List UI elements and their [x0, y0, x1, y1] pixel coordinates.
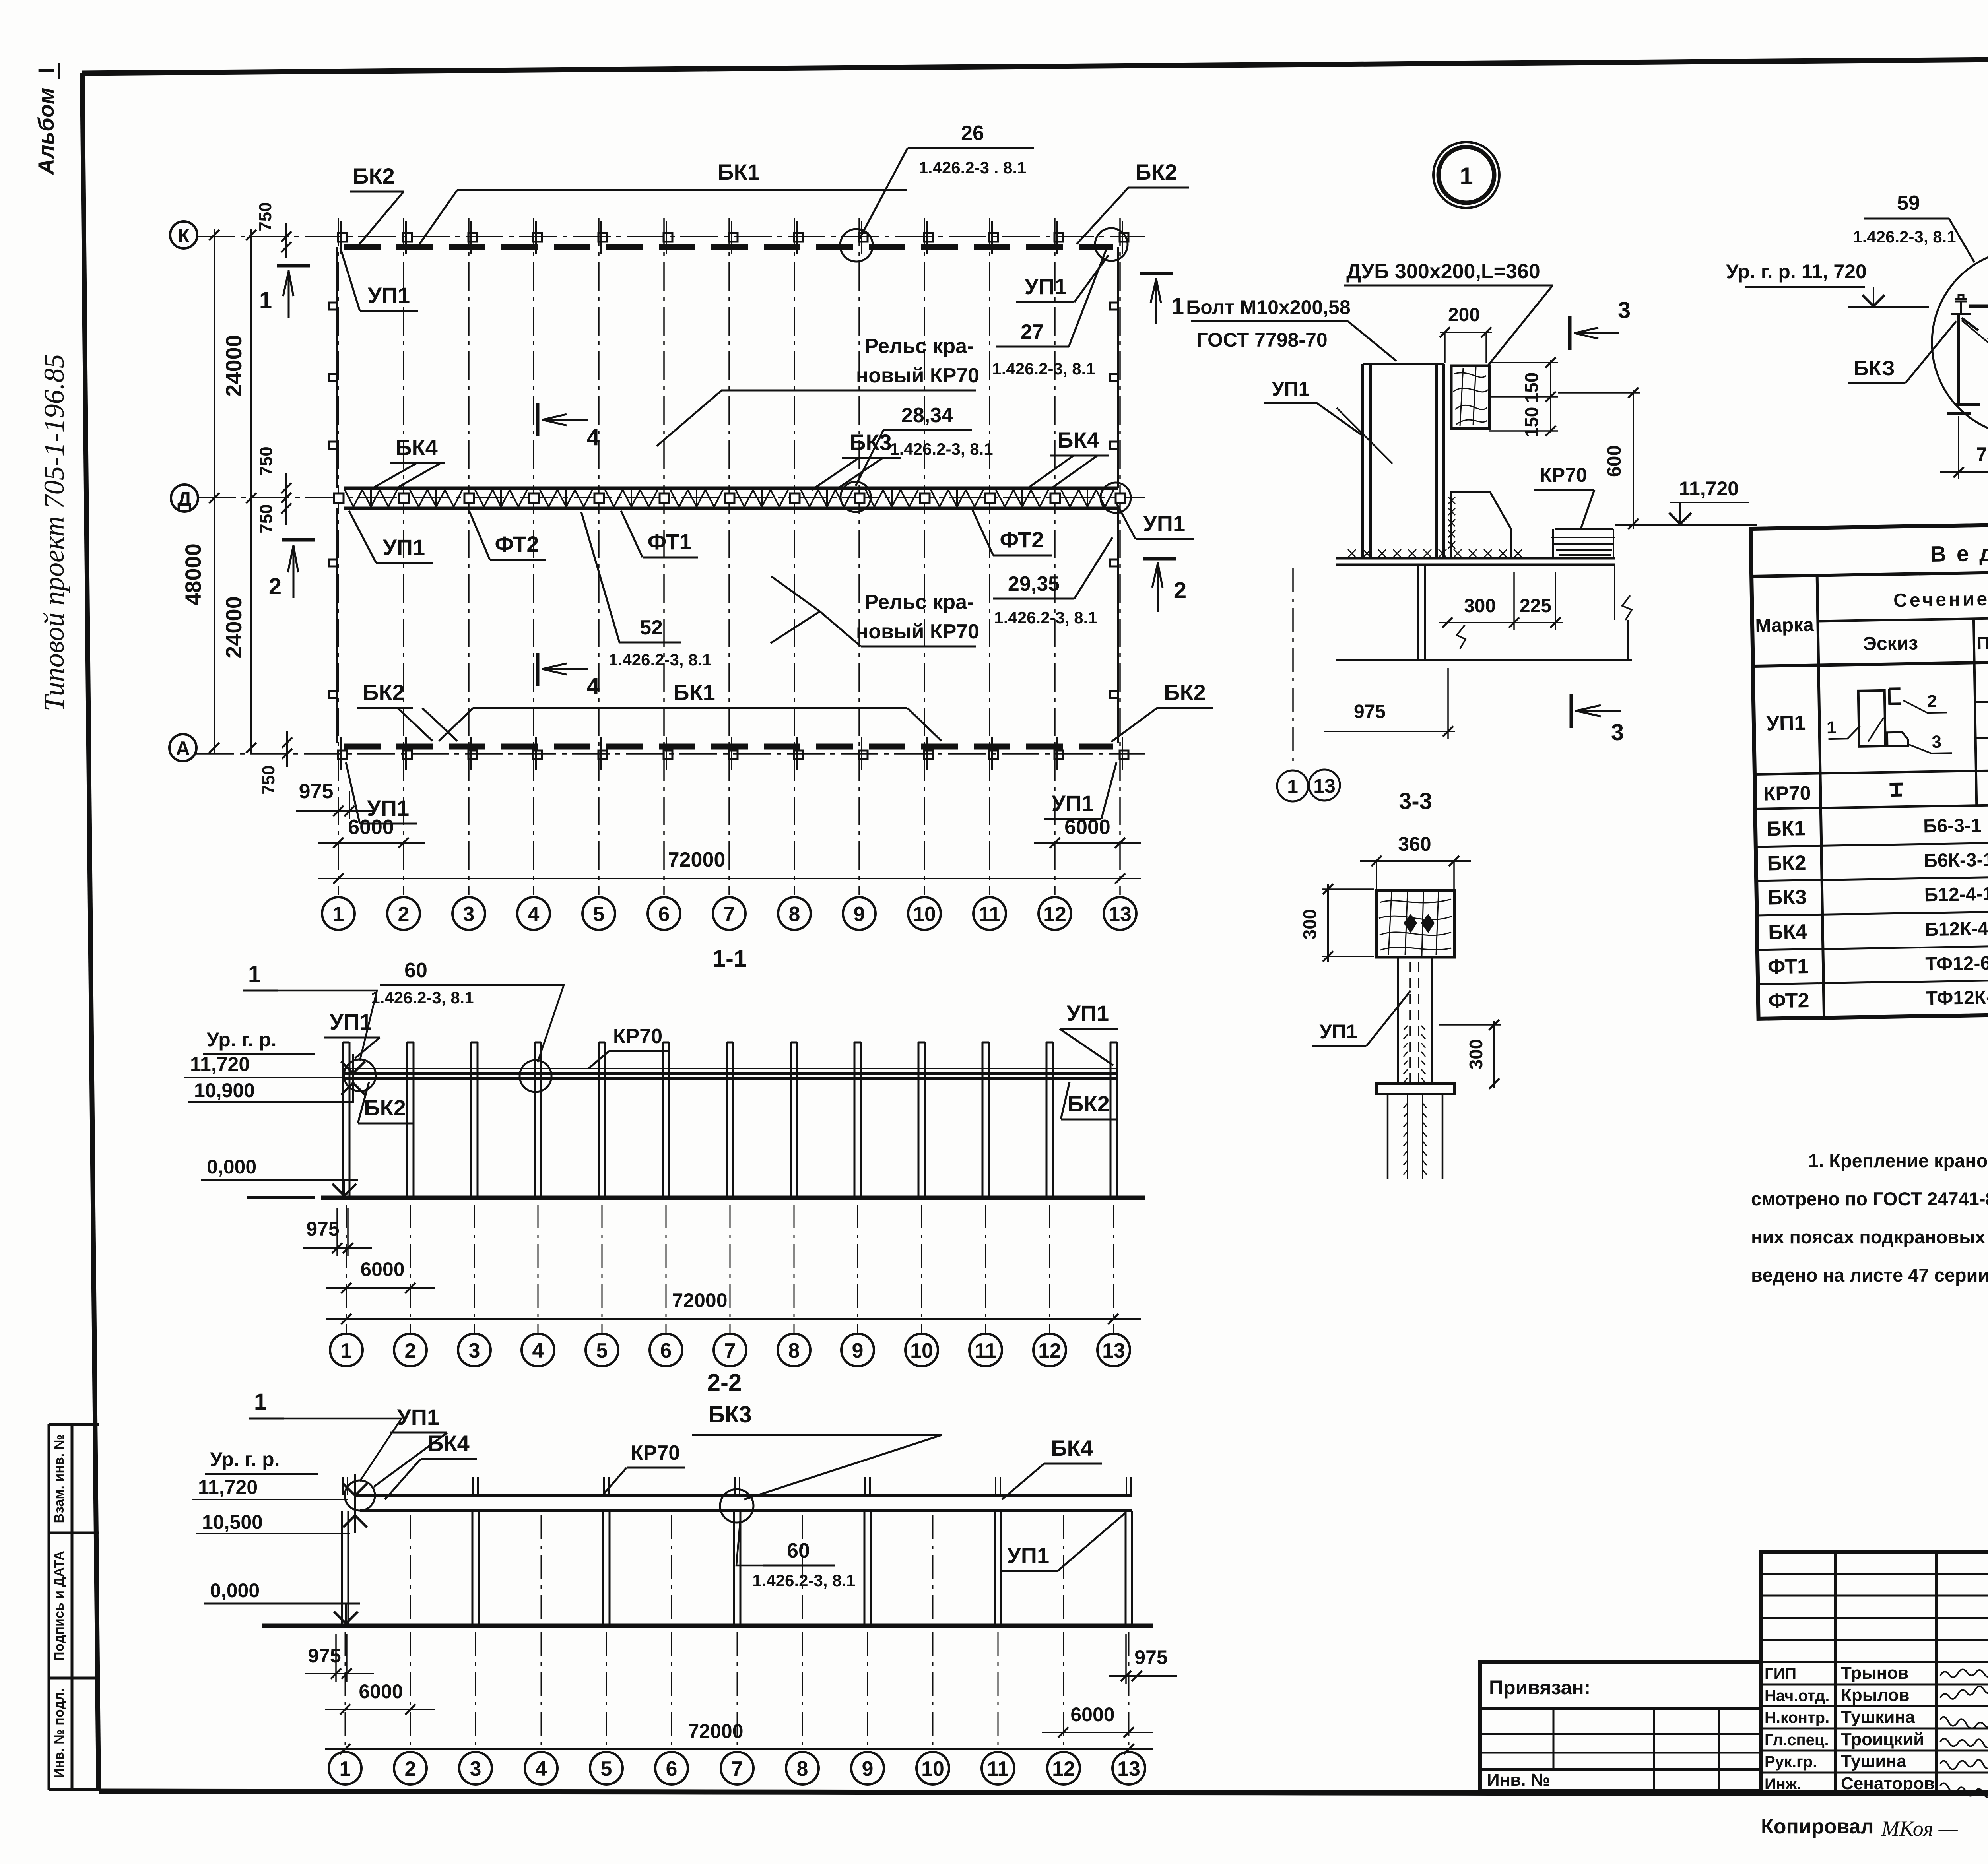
svg-text:750: 750 [256, 446, 276, 475]
page frame bottom border [99, 1791, 1988, 1794]
svg-text:Ур. г. р.: Ур. г. р. [207, 1028, 277, 1051]
node axis 4 [522, 1334, 554, 1366]
svg-text:7: 7 [724, 1339, 736, 1362]
svg-text:Тушкина: Тушкина [1841, 1707, 1915, 1727]
svg-text:6000: 6000 [1070, 1703, 1114, 1726]
svg-text:11,720: 11,720 [190, 1053, 250, 1075]
section mark 4 lower [536, 653, 540, 686]
node axis 5 [582, 897, 615, 930]
svg-text:2: 2 [269, 574, 282, 599]
node axis 13 [1104, 897, 1136, 930]
node axis 8 [778, 897, 811, 930]
section 2-2 node circle col7 [720, 1489, 753, 1523]
svg-text:27: 27 [1021, 320, 1044, 343]
svg-text:2: 2 [405, 1757, 416, 1781]
node axis 1 [322, 897, 355, 930]
svg-text:3: 3 [1611, 720, 1624, 745]
svg-text:ГОСТ 7798-70: ГОСТ 7798-70 [1196, 329, 1327, 351]
rail stub [995, 1477, 996, 1495]
row A column base plates [338, 751, 347, 759]
section mark 2 left [282, 538, 315, 542]
detail 1: column web diagonal [1337, 408, 1392, 464]
rail stub [864, 1477, 866, 1495]
svg-text:750: 750 [259, 765, 278, 794]
svg-text:1-1: 1-1 [712, 945, 747, 972]
svg-text:1.426.2-3, 8.1: 1.426.2-3, 8.1 [752, 1571, 855, 1590]
section 1-1 node circle col1 [344, 1059, 376, 1091]
detail 1: section mark 3 upper [1568, 316, 1572, 350]
svg-text:БК2: БК2 [363, 680, 405, 705]
svg-text:0,000: 0,000 [210, 1579, 260, 1602]
svg-text:УП1: УП1 [1025, 274, 1067, 299]
svg-text:6000: 6000 [360, 1258, 404, 1280]
svg-text:7: 7 [724, 903, 735, 926]
svg-text:72000: 72000 [668, 848, 726, 871]
svg-text:новый КР70: новый КР70 [856, 620, 979, 643]
svg-text:1: 1 [341, 1339, 352, 1362]
svg-text:225: 225 [1520, 595, 1551, 617]
svg-text:48000: 48000 [181, 543, 206, 605]
section 2-2 column axis chains [345, 1632, 346, 1747]
svg-text:28,34: 28,34 [901, 404, 953, 427]
svg-text:5: 5 [593, 903, 605, 926]
node axis 13 [1097, 1334, 1130, 1366]
node axis 3 [458, 1334, 491, 1366]
node axis 8 [786, 1752, 819, 1784]
svg-text:БК1: БК1 [673, 680, 715, 705]
title vertical splits left [1834, 1552, 1837, 1792]
svg-text:I: I [33, 68, 58, 74]
svg-text:Трынов: Трынов [1841, 1663, 1908, 1683]
rail stub [1126, 1477, 1127, 1495]
table header split line [1818, 613, 1988, 621]
svg-text:1: 1 [333, 903, 344, 926]
detail 1: dim 300 225 [1439, 622, 1563, 623]
svg-text:ведено на листе 47 серии 1.426: ведено на листе 47 серии 1.426.2-3, вып.… [1751, 1265, 1988, 1286]
svg-text:13: 13 [1109, 903, 1132, 926]
plan UP1 stop-column line at col13 with bolts [1117, 247, 1119, 488]
section 2-2 columns (odd axes) [341, 1511, 343, 1626]
table row lines [1755, 762, 1988, 774]
section 1-1 node circle col4 [520, 1060, 551, 1092]
svg-text:9: 9 [852, 1339, 864, 1362]
svg-text:ФТ2: ФТ2 [495, 531, 539, 557]
node axis 11 [969, 1334, 1002, 1366]
title block outer [1761, 1552, 1988, 1792]
svg-text:200: 200 [1448, 305, 1480, 326]
4-4 top flange line [1969, 305, 1988, 308]
detail 1: break zigzag [1457, 625, 1466, 649]
svg-text:Подпись и ДАТА: Подпись и ДАТА [52, 1551, 67, 1661]
dim line 48000 vertical [214, 229, 215, 753]
svg-text:24000: 24000 [221, 335, 246, 397]
svg-text:9: 9 [854, 903, 865, 926]
svg-text:БК2: БК2 [364, 1095, 406, 1120]
svg-text:ФТ1: ФТ1 [1768, 955, 1809, 979]
signatures squiggles [1940, 1670, 1988, 1678]
svg-text:3: 3 [469, 1339, 480, 1362]
svg-text:БК3: БК3 [708, 1402, 751, 1428]
plan: axis row A chain line [196, 753, 1145, 755]
beam BK1/BK2 row K dashed [344, 244, 1113, 250]
rail stub [472, 1477, 474, 1495]
detail 4-4 big circle [1932, 250, 1988, 436]
4-4 bottom ticks [1947, 412, 1971, 415]
svg-text:3: 3 [470, 1757, 481, 1781]
row K column base plates [338, 233, 347, 242]
svg-text:УП1: УП1 [368, 283, 410, 308]
svg-text:13: 13 [1313, 775, 1336, 797]
svg-text:11,720: 11,720 [198, 1476, 258, 1498]
beam BK1/BK2 row A dashed [344, 744, 1113, 750]
4-4 rail glyph left [1955, 295, 1967, 301]
svg-text:29,35: 29,35 [1008, 572, 1060, 595]
section 2-2 ground line [262, 1624, 1153, 1628]
page frame left border [82, 73, 99, 1791]
joint circle row K col13 [1095, 228, 1128, 261]
node axis 10 [908, 897, 941, 930]
svg-text:13: 13 [1117, 1757, 1140, 1781]
UP1 sketch [1858, 691, 1885, 747]
section 2-2 beam bottom line [360, 1509, 1132, 1512]
svg-text:Взам. инв. №: Взам. инв. № [52, 1434, 67, 1523]
svg-text:УП1: УП1 [383, 535, 425, 560]
title block sig rows [1761, 1661, 1988, 1663]
svg-text:3: 3 [463, 903, 475, 926]
node axis 9 [843, 897, 876, 930]
detail 1: beam top flange [1336, 557, 1615, 560]
svg-text:ГИП: ГИП [1765, 1665, 1796, 1682]
svg-text:6: 6 [666, 1757, 678, 1781]
3-3 base plate [1376, 1084, 1454, 1094]
svg-text:750: 750 [1976, 443, 1988, 466]
svg-text:Нач.отд.: Нач.отд. [1765, 1687, 1829, 1705]
node axis 12 [1047, 1752, 1080, 1784]
svg-text:6000: 6000 [348, 816, 394, 839]
plan: axis row D chain line [198, 497, 1145, 498]
svg-text:150: 150 [1521, 372, 1542, 403]
joint circle row D col13 [1101, 483, 1131, 513]
title block small top rows [1761, 1573, 1988, 1575]
svg-text:БК2: БК2 [353, 163, 395, 188]
svg-text:1: 1 [1171, 293, 1184, 319]
svg-text:БК3: БК3 [1767, 886, 1807, 910]
joint circle row K col9 [840, 229, 873, 262]
svg-text:Тушина: Тушина [1841, 1752, 1906, 1771]
grid circle D [171, 485, 198, 512]
4-4 bottom dashed chord [1956, 403, 1988, 406]
svg-text:ТФ12-6: ТФ12-6 [1925, 953, 1988, 975]
elements table frame [1751, 516, 1988, 1019]
grid circle K [170, 221, 197, 248]
svg-text:Крылов: Крылов [1841, 1686, 1910, 1705]
svg-text:1. Крепление крановых рельсов: 1. Крепление крановых рельсов к подкрано… [1808, 1150, 1988, 1171]
margin stamp boxes [49, 1424, 99, 1790]
section 2-2 even axis chain lines through bays [410, 1515, 411, 1624]
svg-text:Эскиз: Эскиз [1863, 633, 1918, 655]
svg-text:Марка: Марка [1755, 615, 1814, 636]
detail 1: dim 150 150 [1550, 360, 1551, 433]
rail stub [342, 1477, 344, 1495]
svg-text:БК4: БК4 [1057, 427, 1099, 452]
truss row D bottom chord [344, 507, 1118, 510]
svg-text:1.426.2-3, 8.1: 1.426.2-3, 8.1 [992, 359, 1095, 378]
plan UP1 stop-column line at col1 with bolts [336, 247, 338, 488]
section 1-1 columns [342, 1042, 344, 1198]
svg-text:4: 4 [536, 1757, 547, 1781]
section mark 2 right [1143, 557, 1176, 561]
privyazan block [1480, 1662, 1761, 1791]
svg-text:БК4: БК4 [396, 435, 438, 460]
svg-text:4: 4 [587, 425, 600, 450]
page frame top border [82, 56, 1988, 73]
svg-text:ФТ2: ФТ2 [1768, 989, 1809, 1013]
detail 1: rail KR70 stack [1551, 529, 1615, 555]
node axis 6 [650, 1334, 682, 1366]
svg-text:750: 750 [256, 202, 275, 231]
svg-text:6000: 6000 [359, 1680, 403, 1703]
svg-text:БК1: БК1 [718, 159, 760, 184]
svg-text:8: 8 [788, 1339, 800, 1362]
svg-text:1: 1 [259, 287, 272, 313]
detail 1: bracket stiffener [1451, 492, 1511, 558]
svg-text:БК2: БК2 [1135, 159, 1177, 184]
svg-text:24000: 24000 [221, 596, 246, 658]
section 1-1 ground line [247, 1196, 315, 1199]
svg-text:УП1: УП1 [1067, 1001, 1109, 1026]
node axis 7 [713, 897, 745, 930]
svg-text:10: 10 [913, 903, 936, 926]
detail 1: timber block hatched [1451, 366, 1489, 429]
svg-text:1: 1 [1287, 776, 1298, 798]
detail 1: beam bottom flange [1336, 659, 1632, 661]
svg-text:8: 8 [789, 903, 800, 926]
node axis 10 [916, 1752, 949, 1784]
table title row line [1751, 564, 1988, 576]
svg-text:1: 1 [1827, 718, 1837, 737]
svg-text:1.426.2-3, 8.1: 1.426.2-3, 8.1 [1853, 227, 1956, 246]
svg-text:Б12К-4-1: Б12К-4-1 [1925, 918, 1988, 940]
svg-text:60: 60 [404, 959, 427, 982]
svg-text:Сенаторов: Сенаторов [1841, 1774, 1935, 1793]
svg-text:12: 12 [1052, 1757, 1075, 1781]
node axis 4 [525, 1752, 557, 1784]
svg-text:10: 10 [921, 1757, 944, 1781]
svg-text:11: 11 [979, 903, 1001, 926]
plan: column axis vertical chain lines [338, 218, 339, 895]
svg-text:52: 52 [640, 616, 663, 639]
3-3 dim 300 left [1327, 884, 1329, 962]
svg-text:5: 5 [601, 1757, 612, 1781]
svg-text:БКЗ: БКЗ [1854, 357, 1895, 380]
node axis 9 [841, 1334, 874, 1366]
node axis 12 [1039, 897, 1071, 930]
section 1-1 rail line [344, 1068, 1118, 1069]
svg-text:6: 6 [660, 1339, 672, 1362]
svg-text:КР70: КР70 [613, 1025, 662, 1048]
svg-text:Сечение: Сечение [1893, 589, 1988, 611]
svg-text:ТФ12К-6: ТФ12К-6 [1926, 987, 1988, 1009]
svg-text:БК2: БК2 [1068, 1091, 1110, 1116]
svg-text:975: 975 [306, 1218, 339, 1240]
svg-text:10: 10 [910, 1339, 933, 1362]
svg-text:БК2: БК2 [1767, 852, 1806, 875]
node axis 10 [905, 1334, 938, 1366]
node axis 5 [590, 1752, 623, 1784]
detail 1 axis circles 1 and 13 [1277, 770, 1308, 801]
svg-text:УП1: УП1 [330, 1009, 372, 1034]
svg-text:1: 1 [1460, 163, 1473, 189]
detail 1 leader triangle to timber [1488, 285, 1553, 366]
svg-text:Альбом: Альбом [33, 88, 58, 176]
node axis 3 [452, 897, 485, 930]
svg-text:975: 975 [1354, 701, 1386, 722]
svg-text:4: 4 [528, 903, 540, 926]
node axis 11 [973, 897, 1006, 930]
node axis 7 [714, 1334, 746, 1366]
svg-text:УП1: УП1 [1007, 1543, 1049, 1568]
detail 1: dim 600 [1633, 390, 1634, 529]
dim line 24000x2 vertical [250, 229, 252, 753]
svg-text:1.426.2-3 . 8.1: 1.426.2-3 . 8.1 [919, 158, 1027, 177]
node axis 3 [459, 1752, 492, 1784]
node axis 4 [517, 897, 550, 930]
node axis 11 [982, 1752, 1014, 1784]
svg-text:72000: 72000 [688, 1720, 743, 1742]
4-4 diagonal dashed brace [1962, 318, 1988, 382]
svg-text:2: 2 [398, 903, 410, 926]
svg-text:3-3: 3-3 [1399, 788, 1432, 814]
svg-text:8: 8 [797, 1757, 808, 1781]
svg-text:К: К [178, 225, 190, 247]
rail stub [734, 1477, 736, 1495]
svg-text:УП1: УП1 [1143, 511, 1185, 536]
svg-text:1.426.2-3, 8.1: 1.426.2-3, 8.1 [371, 988, 474, 1007]
svg-text:13: 13 [1102, 1339, 1125, 1362]
svg-text:4: 4 [532, 1339, 544, 1362]
node axis 1 [329, 1752, 361, 1784]
node axis 5 [586, 1334, 618, 1366]
node axis 2 [387, 897, 420, 930]
svg-text:БК2: БК2 [1164, 680, 1206, 705]
svg-text:ДУБ 300х200,L=360: ДУБ 300х200,L=360 [1346, 260, 1540, 283]
detail 1: weld x-hatch on bracket edge [1448, 497, 1455, 549]
svg-text:2-2: 2-2 [707, 1369, 742, 1396]
svg-text:МКоя —: МКоя — [1881, 1817, 1958, 1841]
svg-text:11,720: 11,720 [1679, 477, 1739, 500]
svg-text:1.426.2-3, 8.1: 1.426.2-3, 8.1 [994, 608, 1097, 627]
detail 1: section mark 3 lower [1570, 694, 1573, 728]
svg-text:Троицкий: Троицкий [1841, 1730, 1924, 1749]
svg-text:БК1: БК1 [1767, 817, 1806, 841]
svg-text:750: 750 [256, 504, 276, 533]
svg-text:Инв. № подл.: Инв. № подл. [52, 1688, 67, 1778]
svg-text:Рук.гр.: Рук.гр. [1765, 1753, 1817, 1771]
svg-text:26: 26 [961, 122, 984, 145]
svg-text:12: 12 [1043, 903, 1066, 926]
svg-text:11: 11 [975, 1339, 997, 1362]
svg-text:9: 9 [862, 1757, 874, 1781]
node axis 13 [1112, 1752, 1145, 1784]
dim 750 at row A [286, 731, 288, 767]
node axis 6 [655, 1752, 688, 1784]
svg-text:Рельс кра-: Рельс кра- [865, 591, 974, 614]
svg-text:Поз.: Поз. [1976, 633, 1988, 653]
svg-text:УП1: УП1 [1052, 791, 1094, 816]
detail 1: column UP1 body [1361, 364, 1364, 558]
svg-text:4: 4 [587, 673, 600, 699]
svg-text:УП1: УП1 [1320, 1020, 1357, 1043]
svg-text:2: 2 [1927, 692, 1937, 711]
svg-text:59: 59 [1897, 192, 1920, 215]
table UP1 subrow lines [1975, 693, 1988, 702]
svg-text:БК3: БК3 [850, 430, 892, 455]
node axis 7 [721, 1752, 753, 1784]
svg-text:600: 600 [1604, 445, 1625, 477]
3-3 timber block [1376, 890, 1454, 957]
svg-text:ФТ2: ФТ2 [1000, 527, 1044, 552]
dim 750x2 at row D [285, 473, 287, 525]
svg-text:300: 300 [1466, 1039, 1486, 1070]
section 1-1 column axis chains [346, 1205, 347, 1333]
svg-text:смотрено по ГОСТ 24741-81 на п: смотрено по ГОСТ 24741-81 на планках. Ра… [1751, 1188, 1988, 1209]
svg-text:БК4: БК4 [427, 1431, 470, 1456]
svg-text:Б12-4-1: Б12-4-1 [1924, 884, 1988, 906]
svg-text:72000: 72000 [672, 1289, 727, 1311]
svg-text:3: 3 [1932, 732, 1941, 752]
section 2-2 node circle col1 [345, 1480, 375, 1511]
svg-text:150: 150 [1521, 407, 1542, 438]
node axis 6 [648, 897, 680, 930]
truss row D web diagonals [345, 490, 1114, 507]
node axis 9 [851, 1752, 884, 1784]
svg-text:новый КР70: новый КР70 [856, 364, 979, 387]
table col Marka [1817, 575, 1824, 1018]
section mark 1 left [277, 264, 310, 268]
detail 1: dim 975 [1324, 731, 1455, 732]
svg-text:1: 1 [340, 1757, 351, 1781]
svg-text:6: 6 [658, 903, 670, 926]
node axis 2 [394, 1334, 427, 1366]
svg-text:Б6-3-1: Б6-3-1 [1923, 815, 1982, 837]
svg-text:УП1: УП1 [397, 1404, 439, 1430]
svg-text:Инв. №: Инв. № [1487, 1770, 1550, 1790]
svg-text:Б6К-3-1: Б6К-3-1 [1924, 850, 1988, 872]
row D column plates [334, 493, 344, 503]
node axis 8 [778, 1334, 810, 1366]
svg-text:11: 11 [987, 1757, 1009, 1781]
svg-text:2: 2 [405, 1339, 416, 1362]
dim 750 at row K [285, 223, 287, 258]
svg-text:Гл.спец.: Гл.спец. [1765, 1731, 1829, 1749]
truss row D top chord [344, 487, 1118, 490]
svg-text:УП1: УП1 [1766, 712, 1806, 735]
detail 1: axis chain down to circles [1292, 568, 1294, 767]
svg-text:А: А [176, 737, 190, 760]
svg-text:975: 975 [299, 780, 334, 803]
svg-text:БК4: БК4 [1768, 920, 1807, 944]
svg-text:УП1: УП1 [1272, 378, 1310, 400]
svg-text:10,900: 10,900 [194, 1079, 255, 1102]
4-4 posts [1957, 314, 1960, 406]
3-3 dim 300 right [1493, 1021, 1495, 1088]
svg-text:Копировал: Копировал [1761, 1815, 1874, 1838]
svg-text:360: 360 [1398, 833, 1431, 855]
svg-text:2: 2 [1174, 578, 1186, 603]
svg-text:10,500: 10,500 [202, 1511, 263, 1533]
svg-text:300: 300 [1464, 595, 1496, 617]
svg-text:7: 7 [732, 1757, 743, 1781]
